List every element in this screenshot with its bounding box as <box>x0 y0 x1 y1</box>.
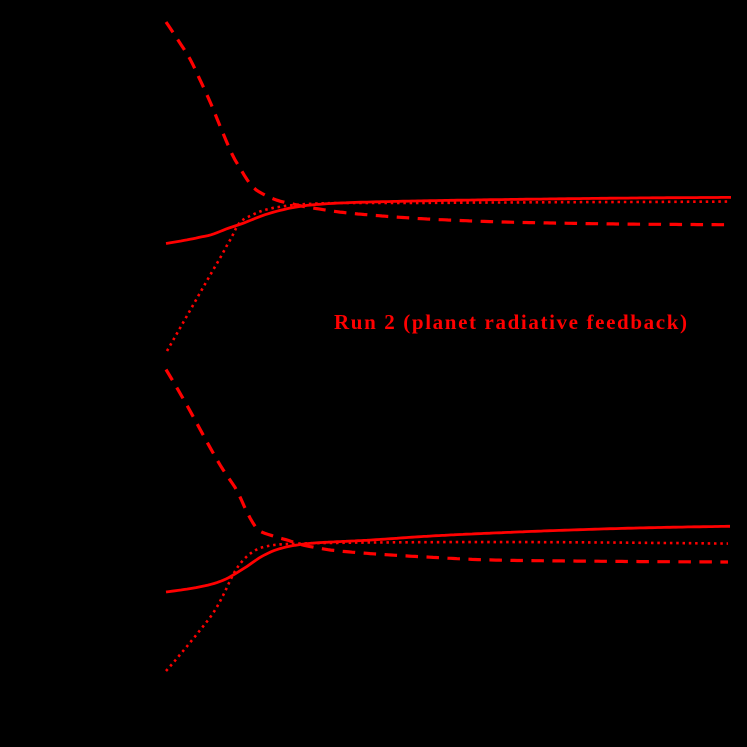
top panel: dashed curve (apoapsis, Run 2) <box>166 22 730 225</box>
top panel: solid curve (semi-major axis, Run 2) <box>166 197 731 243</box>
bottom panel: solid curve (semi-major axis) <box>166 526 730 592</box>
bottom panel: dashed curve (apoapsis) <box>166 370 728 563</box>
svg-text:Run 2 (planet radiative feedba: Run 2 (planet radiative feedback) <box>334 310 687 334</box>
bottom panel: dotted curve (periapsis) <box>166 542 728 671</box>
top panel: dotted curve (periapsis, Run 2) <box>167 202 728 351</box>
